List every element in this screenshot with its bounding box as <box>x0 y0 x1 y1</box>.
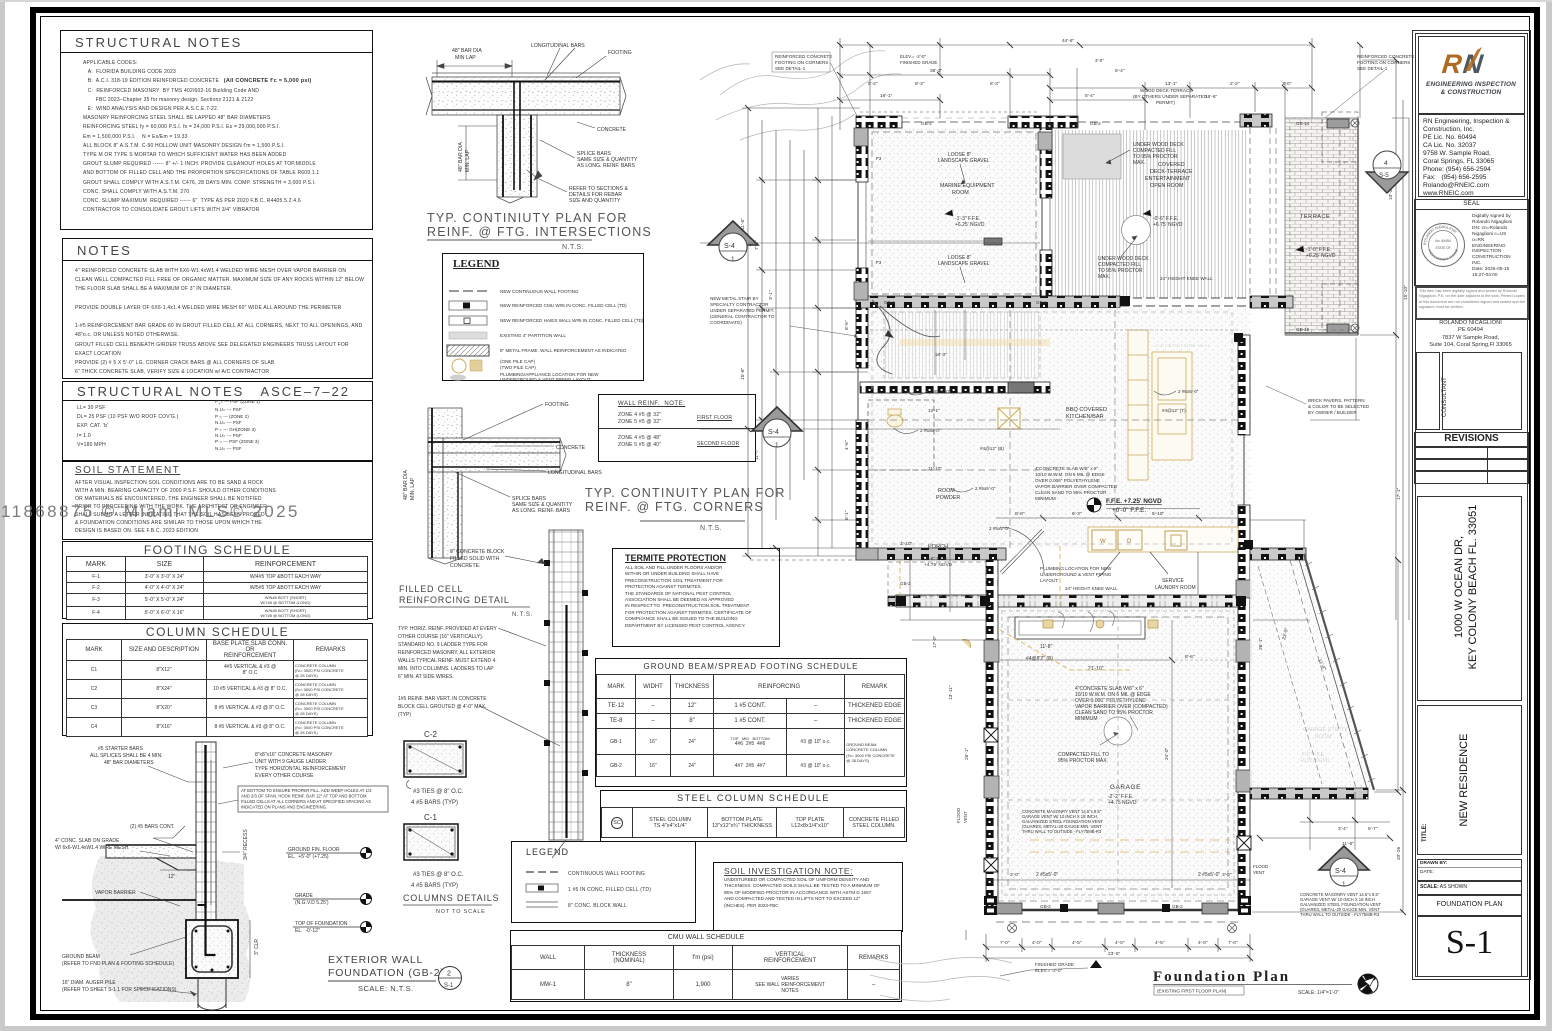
svg-text:8'-5": 8'-5" <box>844 320 850 330</box>
gray pads on garage walls <box>854 128 1251 798</box>
svg-text:(TWO PILE CAP): (TWO PILE CAP) <box>500 365 536 370</box>
interior ground-beam dashed grids <box>868 310 1322 895</box>
T-detail dimension 48in bar dia <box>437 60 512 180</box>
contact info box <box>1418 114 1525 197</box>
filled cell reinforcing detail ladder <box>544 530 588 858</box>
svg-text:CLEAN SAND TO 95% PROCTOR: CLEAN SAND TO 95% PROCTOR <box>1035 490 1107 495</box>
svg-text:26'-1": 26'-1" <box>964 747 970 760</box>
svg-text:DECK-TERRACE: DECK-TERRACE <box>1150 169 1193 175</box>
svg-text:FILLED CELLS AT ALL CORNERS AN: FILLED CELLS AT ALL CORNERS AND AT SPECI… <box>241 799 371 804</box>
svg-text:48" BAR DIA: 48" BAR DIA <box>458 142 464 172</box>
svg-text:4'-6": 4'-6" <box>844 440 850 450</box>
svg-text:FINISHED GRADE: FINISHED GRADE <box>1035 962 1074 967</box>
svg-text:7'-0": 7'-0" <box>1000 940 1010 946</box>
svg-text:CONCRETE: CONCRETE <box>556 445 586 451</box>
svg-text:PLUMBING LOCATION FOR NEW: PLUMBING LOCATION FOR NEW <box>1040 566 1112 571</box>
svg-text:W/ 6x6-W1.4xW1.4 WIRE MESH: W/ 6x6-W1.4xW1.4 WIRE MESH <box>55 845 129 851</box>
svg-text:21'-10": 21'-10" <box>1088 666 1104 672</box>
svg-text:COVERED: COVERED <box>1158 162 1185 168</box>
small junction squares middle wing <box>896 296 1253 606</box>
revisions header <box>1414 432 1529 448</box>
stair corridor with hatch + tan runner <box>860 300 1050 429</box>
svg-text:SERVICE: SERVICE <box>1162 578 1185 584</box>
svg-text:FINISHED GRADE: FINISHED GRADE <box>900 60 937 65</box>
svg-text:3'-4": 3'-4" <box>1338 826 1348 832</box>
svg-text:4" CONC. SLAB ON GRADE: 4" CONC. SLAB ON GRADE <box>55 838 120 844</box>
marine room interior fill <box>870 128 1040 298</box>
svg-text:LONGITUDINAL BARS: LONGITUDINAL BARS <box>531 43 585 49</box>
svg-text:2 #5x5'-0": 2 #5x5'-0" <box>989 526 1010 531</box>
svg-text:NEW METAL STAIR BY: NEW METAL STAIR BY <box>710 296 759 301</box>
scale <box>1417 880 1522 896</box>
svg-text:SCALE: N.T.S.: SCALE: N.T.S. <box>358 984 414 993</box>
svg-text:3'-1": 3'-1" <box>768 290 774 300</box>
svg-text:LANDSCAPE GRAVEL: LANDSCAPE GRAVEL <box>938 261 990 267</box>
right dims <box>1395 60 1397 620</box>
svg-text:PROFESSIONAL ENGINEER: PROFESSIONAL ENGINEER <box>1415 210 1459 262</box>
svg-text:24" HEIGHT KNEE WALL: 24" HEIGHT KNEE WALL <box>1065 586 1118 591</box>
svg-text:10/10 W.W.M. ON 6 MIL @ EDGE: 10/10 W.W.M. ON 6 MIL @ EDGE <box>1035 472 1105 477</box>
svg-text:4'-0": 4'-0" <box>1032 940 1042 946</box>
svg-text:7'-0": 7'-0" <box>1228 940 1238 946</box>
svg-text:S-4: S-4 <box>724 243 735 250</box>
S-5 marker top right <box>1366 151 1408 193</box>
svg-text:LANDSCAPE GRAVEL: LANDSCAPE GRAVEL <box>938 158 990 164</box>
svg-text:4: 4 <box>1384 160 1388 167</box>
svg-text:MAX.: MAX. <box>1098 274 1110 280</box>
svg-text:1: 1 <box>731 256 735 263</box>
W D boxes <box>1092 530 1116 550</box>
svg-text:48" BAR DIA: 48" BAR DIA <box>403 470 409 500</box>
svg-text:3'-0": 3'-0" <box>1010 872 1020 878</box>
svg-text:UNDERGROUND & VENT PIPING: UNDERGROUND & VENT PIPING <box>1040 572 1112 577</box>
svg-text:8'-6": 8'-6" <box>1185 654 1195 660</box>
svg-text:2'-2": 2'-2" <box>1230 81 1240 87</box>
auger pile <box>197 978 199 1008</box>
project address box <box>1417 496 1522 701</box>
svg-text:EXISTING 4" PARTITION WALL: EXISTING 4" PARTITION WALL <box>500 333 566 338</box>
left dims <box>747 108 749 556</box>
big X vent at right <box>998 408 1020 429</box>
svg-text:LAYOUT: LAYOUT <box>1040 578 1058 583</box>
svg-text:5'-2": 5'-2" <box>868 81 878 87</box>
kitchen bar counters (tan) <box>1088 330 1238 552</box>
svg-text:18'-3": 18'-3" <box>935 352 947 357</box>
equipment dark rect in marine room <box>984 238 1002 245</box>
svg-text:8'-8": 8'-8" <box>1015 511 1025 517</box>
svg-text:11'-7": 11'-7" <box>754 448 760 460</box>
svg-text:+6.25' NGVD: +6.25' NGVD <box>955 222 985 228</box>
svg-text:FLOOD: FLOOD <box>956 808 961 823</box>
garage circle <box>1104 717 1132 745</box>
svg-text:AS LONG. REINF. BARS: AS LONG. REINF. BARS <box>512 508 570 514</box>
service band across top of garage <box>896 595 1242 607</box>
svg-text:GROUND FIN. FLOOR: GROUND FIN. FLOOR <box>288 847 340 853</box>
contour squiggles bottom <box>862 955 1012 1001</box>
extra ticks <box>745 42 1401 841</box>
legend box lower <box>511 841 696 923</box>
svg-text:36'-2": 36'-2" <box>930 68 943 74</box>
extra dim lines for density <box>700 38 1398 850</box>
top-right corner band <box>1240 114 1272 127</box>
svg-text:STANDARD NO. 9 LADDER TYPE FOR: STANDARD NO. 9 LADDER TYPE FOR <box>398 642 488 648</box>
svg-text:GB-2: GB-2 <box>921 121 932 126</box>
terrace right edge <box>1357 118 1359 335</box>
garage bottom wall <box>986 909 1250 911</box>
terrace brick <box>1285 118 1358 335</box>
svg-text:FILLED SOLID WITH: FILLED SOLID WITH <box>450 556 500 562</box>
svg-text:+6.75' NGVD: +6.75' NGVD <box>1153 222 1183 228</box>
column schedule panel <box>62 623 373 736</box>
dim line above laundry counter <box>996 509 1240 595</box>
svg-text:FOOTING ON CORNERS: FOOTING ON CORNERS <box>775 60 828 65</box>
svg-text:AT BOTTOM TO ENSURE PROPER FIL: AT BOTTOM TO ENSURE PROPER FILL. ADD WEE… <box>241 788 372 793</box>
flood vent X markers <box>984 728 1251 872</box>
level markers <box>286 847 372 934</box>
soil investigation note <box>713 862 903 932</box>
svg-text:ALL SPLICES SHALL BE 4 MIN.: ALL SPLICES SHALL BE 4 MIN. <box>90 753 162 759</box>
svg-text:SIZE AND QUANTITY: SIZE AND QUANTITY <box>569 198 621 204</box>
svg-text:(2) #5 BARS CONT.: (2) #5 BARS CONT. <box>130 824 174 830</box>
terrace inner dashes <box>1290 123 1353 330</box>
svg-text:+0'-0" F.F.E.: +0'-0" F.F.E. <box>1112 507 1146 514</box>
svg-text:95% PROCTOR MAX.: 95% PROCTOR MAX. <box>1058 758 1108 764</box>
T-detail title <box>427 211 652 251</box>
svg-text:S-1: S-1 <box>444 983 454 989</box>
svg-text:13'-1": 13'-1" <box>928 408 940 413</box>
garage interior vertical dim <box>1171 620 1173 888</box>
svg-text:OVER 0.006" POLYETHYLENE: OVER 0.006" POLYETHYLENE <box>1035 478 1100 483</box>
outer gray page edges <box>0 0 5 1031</box>
svg-text:5'-7": 5'-7" <box>1368 826 1378 832</box>
dimension tick marks <box>745 42 1406 961</box>
svg-text:EVERY OTHER COURSE: EVERY OTHER COURSE <box>255 773 314 779</box>
svg-text:17'-1": 17'-1" <box>1396 487 1402 500</box>
svg-text:EL. -0'-12": EL. -0'-12" <box>295 928 320 934</box>
svg-text:FILLED CELL: FILLED CELL <box>399 584 463 594</box>
seal bar <box>1414 199 1529 210</box>
svg-text:8'-3": 8'-3" <box>915 81 925 87</box>
steel column schedule <box>600 790 907 842</box>
consultant boxes <box>1416 352 1440 430</box>
svg-text:+4.75' NGVD: +4.75' NGVD <box>924 562 953 568</box>
svg-text:16" DIAM. AUGER PILE: 16" DIAM. AUGER PILE <box>62 980 116 986</box>
svg-text:GB-1: GB-1 <box>1036 300 1047 305</box>
svg-text:COORDINATE): COORDINATE) <box>710 320 742 325</box>
3in clr dim <box>249 920 251 978</box>
svg-text:MIN. INTO COLUMNS. LADDERS TO: MIN. INTO COLUMNS. LADDERS TO LAP <box>398 666 494 672</box>
powder room <box>868 400 960 501</box>
svg-text:POWDER: POWDER <box>936 495 960 501</box>
svg-text:MAX.: MAX. <box>1133 160 1145 166</box>
footing T-detail concrete band <box>426 73 626 203</box>
svg-text:F.F.E. +7.25' NGVD: F.F.E. +7.25' NGVD <box>1106 498 1162 505</box>
svg-text:UNDER SEPARATED PERMIT.: UNDER SEPARATED PERMIT. <box>710 308 774 313</box>
svg-text:F3: F3 <box>876 156 882 161</box>
footing schedule panel <box>62 541 373 619</box>
svg-text:24'-0": 24'-0" <box>1164 747 1170 760</box>
svg-text:GB-2: GB-2 <box>1040 904 1051 909</box>
svg-text:15'-10": 15'-10" <box>1403 285 1409 300</box>
svg-text:OPEN ROOM: OPEN ROOM <box>1150 183 1184 189</box>
svg-text:C-2: C-2 <box>424 730 437 739</box>
svg-text:THRU WALL TO OUTSIDE - FLY75MB: THRU WALL TO OUTSIDE - FLY75MB-R3 <box>1022 829 1102 834</box>
svg-text:MINIMUM: MINIMUM <box>1035 496 1056 501</box>
svg-text:4 #5 BARS (TYP): 4 #5 BARS (TYP) <box>411 883 458 889</box>
svg-text:24" HEIGHT KNEE WALL: 24" HEIGHT KNEE WALL <box>1160 276 1213 281</box>
svg-text:GROUND BEAM: GROUND BEAM <box>62 954 100 960</box>
svg-text:GRADE: GRADE <box>295 893 313 899</box>
svg-text:5'-4": 5'-4" <box>1085 93 1095 99</box>
upper wing labels <box>876 88 1336 348</box>
sheet title <box>1417 894 1522 917</box>
svg-text:#5 STARTER BARS: #5 STARTER BARS <box>98 746 143 752</box>
svg-text:4'-5": 4'-5" <box>1072 940 1082 946</box>
svg-text:N.T.S.: N.T.S. <box>562 244 584 251</box>
svg-text:GB-14: GB-14 <box>1296 121 1310 126</box>
svg-text:2 #5x5'-0": 2 #5x5'-0" <box>1036 872 1058 878</box>
svg-text:2: 2 <box>447 971 451 978</box>
svg-text:FOOTING ON CORNERS: FOOTING ON CORNERS <box>1357 60 1410 65</box>
svg-text:S-4: S-4 <box>768 429 779 436</box>
svg-text:CONCRETE.: CONCRETE. <box>450 563 481 569</box>
svg-text:REINF. @ FTG. CORNERS: REINF. @ FTG. CORNERS <box>585 500 764 514</box>
svg-text:#4@12" (T): #4@12" (T) <box>1162 408 1186 413</box>
svg-text:4 #5 BARS (TYP): 4 #5 BARS (TYP) <box>411 800 458 806</box>
plan title <box>1153 969 1378 996</box>
svg-text:LONGITUDINAL BARS: LONGITUDINAL BARS <box>548 470 602 476</box>
svg-text:#4@8'2" (B): #4@8'2" (B) <box>1026 656 1053 662</box>
footing block <box>186 920 238 978</box>
svg-text:No. 60494: No. 60494 <box>1435 239 1451 243</box>
svg-text:OTHER COURSE (16" VERTICALLY).: OTHER COURSE (16" VERTICALLY). <box>398 634 483 640</box>
svg-text:6" MIN. AT SIDE WIRES.: 6" MIN. AT SIDE WIRES. <box>398 674 454 680</box>
deck gray rect <box>1063 134 1121 179</box>
svg-text:LAUNDRY ROOM: LAUNDRY ROOM <box>1155 585 1196 591</box>
svg-text:MIN LAP: MIN LAP <box>455 55 476 61</box>
svg-text:1: 1 <box>1342 881 1346 888</box>
svg-text:INDICATED ON PLANS AND ENGINEE: INDICATED ON PLANS AND ENGINEERING. <box>241 805 327 810</box>
svg-text:GB-2: GB-2 <box>1090 121 1101 126</box>
north arrow <box>1358 974 1378 994</box>
left wall middle wing <box>856 308 868 368</box>
svg-text:2 #5x5'-0": 2 #5x5'-0" <box>975 486 996 491</box>
svg-text:MIN. LAP: MIN. LAP <box>465 149 471 172</box>
svg-text:EXTERIOR WALL: EXTERIOR WALL <box>328 954 423 966</box>
svg-text:4'-0": 4'-0" <box>1198 940 1208 946</box>
structural notes asce panel <box>62 381 373 461</box>
f.f.e. datum <box>1087 498 1162 514</box>
svg-text:GB-1: GB-1 <box>884 300 895 305</box>
svg-text:4'-0": 4'-0" <box>1115 940 1125 946</box>
svg-text:(TYP): (TYP) <box>398 712 411 718</box>
svg-text:TYP. HORIZ. REINF. PROVIDED AT: TYP. HORIZ. REINF. PROVIDED AT EVERY <box>398 626 497 632</box>
wall: CMU with ladder <box>196 742 216 922</box>
right wall marine room <box>1040 128 1052 198</box>
svg-text:Foundation Plan: Foundation Plan <box>1153 969 1290 985</box>
svg-text:WALLS TYPICAL REINF. MUST EXTE: WALLS TYPICAL REINF. MUST EXTEND 4. <box>398 658 497 664</box>
knee wall band bottom of upper wing <box>856 296 1120 308</box>
top dashed to terrace <box>1078 121 1255 123</box>
garage labels <box>956 578 1381 917</box>
leader: reinforced concrete footing notes <box>710 54 1414 973</box>
svg-text:STATE OF: STATE OF <box>1435 246 1450 250</box>
soil statement panel <box>62 461 373 540</box>
svg-text:TERRACE: TERRACE <box>1300 214 1330 220</box>
svg-text:17'-0": 17'-0" <box>932 635 938 648</box>
svg-text:KITCHEN/BAR: KITCHEN/BAR <box>1066 414 1104 420</box>
RN logo box <box>1418 36 1525 114</box>
plumbing tan dashed lines <box>900 546 1130 670</box>
svg-text:TOP OF FOUNDATION: TOP OF FOUNDATION <box>295 921 348 927</box>
svg-text:20'-26: 20'-26 <box>1396 846 1402 860</box>
svg-text:15'-8": 15'-8" <box>740 367 746 380</box>
svg-text:SEE DETAIL-1: SEE DETAIL-1 <box>1357 66 1388 71</box>
svg-text:11'-8": 11'-8" <box>1040 644 1053 650</box>
svg-text:+6.25' NGVD: +6.25' NGVD <box>1306 253 1336 259</box>
svg-text:REINF. @ FTG. INTERSECTIONS: REINF. @ FTG. INTERSECTIONS <box>427 225 652 239</box>
svg-text:(N.G.V.D 5.25'): (N.G.V.D 5.25') <box>295 900 329 906</box>
starter bar hook <box>198 904 206 906</box>
svg-text:1#5 REINF. BAR VERT. IN CONCRE: 1#5 REINF. BAR VERT. IN CONCRETE <box>398 696 487 702</box>
svg-text:NOT TO SCALE: NOT TO SCALE <box>436 909 486 915</box>
notes panel <box>62 238 373 379</box>
second wall band <box>860 382 1050 393</box>
sheet number S-1 <box>1417 915 1522 977</box>
exterior wall foundation title <box>328 954 462 993</box>
svg-text:+4.75 NGVD: +4.75 NGVD <box>1108 800 1137 806</box>
svg-text:2 #5x5'-0": 2 #5x5'-0" <box>1178 389 1199 394</box>
svg-text:ENTERTAINMENT: ENTERTAINMENT <box>1145 176 1191 182</box>
top wall band mid cluster <box>1008 116 1078 128</box>
bottom dims garage <box>986 879 1250 881</box>
marine room inner dashed outline <box>872 132 1036 294</box>
svg-text:#4@12" (B): #4@12" (B) <box>980 446 1004 451</box>
svg-text:COLUMNS DETAILS: COLUMNS DETAILS <box>403 893 499 903</box>
svg-text:26'-1": 26'-1" <box>1258 637 1264 650</box>
svg-text:REINFORCED CONCRETE: REINFORCED CONCRETE <box>775 54 832 59</box>
terrace bottom band <box>1285 332 1358 334</box>
svg-text:5'-4": 5'-4" <box>1115 68 1125 74</box>
mid horizontal dims <box>870 329 1240 331</box>
right edge middle wing <box>1238 335 1250 435</box>
svg-text:ROOM: ROOM <box>952 190 969 196</box>
svg-text:48" BAR DIAMETERS: 48" BAR DIAMETERS <box>104 760 154 766</box>
ground beam / spread footing schedule <box>595 658 907 787</box>
svg-text:3/4" RECESS: 3/4" RECESS <box>243 829 249 860</box>
drawn by / date <box>1417 859 1522 882</box>
svg-text:GARAGE: GARAGE <box>1110 784 1141 791</box>
svg-text:TYP. CONTINUITY PLAN FOR: TYP. CONTINUITY PLAN FOR <box>585 486 786 500</box>
svg-text:8'-3": 8'-3" <box>990 81 1000 87</box>
structural notes panel <box>60 30 373 230</box>
svg-text:REINFORCED CONCRETE: REINFORCED CONCRETE <box>1357 54 1414 59</box>
svg-text:TYPE HORIZONTAL REINFORCEMENT: TYPE HORIZONTAL REINFORCEMENT <box>255 766 346 772</box>
svg-text:NEW CONTINUOUS WALL FOOTING: NEW CONTINUOUS WALL FOOTING <box>500 289 579 294</box>
grade line left <box>62 899 196 901</box>
column detail C-1 <box>404 813 464 889</box>
utility room <box>1250 548 1375 799</box>
svg-text:VENT: VENT <box>963 811 968 823</box>
svg-text:44'-6": 44'-6" <box>1062 38 1075 44</box>
plumbing small symbols <box>962 620 1158 648</box>
svg-text:#3 TIES @ 8" O.C.: #3 TIES @ 8" O.C. <box>413 872 464 878</box>
svg-text:R: R <box>1441 48 1464 79</box>
svg-text:& CONSTRUCTION: & CONSTRUCTION <box>1441 89 1502 96</box>
seal box with stamp + signature text <box>1414 209 1529 286</box>
wall reinf note box <box>598 394 756 462</box>
svg-text:AND 2/3 OF SPAN. HOOK REINF. B: AND 2/3 OF SPAN. HOOK REINF. BAR 12" AT … <box>241 794 367 799</box>
landscape contour squiggles top-left <box>700 51 901 140</box>
svg-text:6'-3": 6'-3" <box>1072 511 1082 517</box>
svg-text:19'-1": 19'-1" <box>880 93 893 99</box>
corner title <box>585 486 786 532</box>
svg-text:3" CLR: 3" CLR <box>254 939 260 955</box>
svg-text:N.T.S.: N.T.S. <box>512 612 533 618</box>
soil stipple backdrop <box>91 854 251 1002</box>
svg-text:8" METAL FRAME. WALL REINFORCE: 8" METAL FRAME. WALL REINFORCEMENT AS IN… <box>500 348 627 353</box>
interior dim texts middle wing <box>920 352 1199 591</box>
svg-text:GB-2: GB-2 <box>1172 904 1183 909</box>
svg-text:FOOTING: FOOTING <box>608 50 632 56</box>
small leader curls above planter <box>1058 611 1114 632</box>
svg-text:13'-1": 13'-1" <box>1165 81 1178 87</box>
cmu wall schedule <box>510 930 902 1002</box>
svg-text:4'-5": 4'-5" <box>1155 940 1165 946</box>
svg-text:MARINE EQUIPMENT: MARINE EQUIPMENT <box>940 183 995 189</box>
title box: NEW RESIDENCE <box>1417 705 1522 855</box>
svg-text:EL. +5'-0" (+7.25): EL. +5'-0" (+7.25) <box>288 854 329 860</box>
svg-text:8" CONCRETE BLOCK: 8" CONCRETE BLOCK <box>450 549 505 555</box>
svg-text:VAPOR BARRIER OVER COMPACTED: VAPOR BARRIER OVER COMPACTED <box>1035 484 1118 489</box>
svg-text:#3 TIES @ 8" O.C.: #3 TIES @ 8" O.C. <box>413 789 464 795</box>
svg-text:SEE DETAIL-1: SEE DETAIL-1 <box>775 66 806 71</box>
engineer address <box>1414 320 1527 350</box>
svg-text:FOOTING: FOOTING <box>545 402 569 408</box>
note box in exterior detail <box>238 786 388 812</box>
svg-text:S-4: S-4 <box>1335 868 1346 875</box>
deck hatch region <box>1052 130 1248 298</box>
S-4 marker left upper <box>708 221 1040 263</box>
svg-text:1: 1 <box>775 442 779 449</box>
svg-text:VAPOR BARRIER: VAPOR BARRIER <box>95 890 136 896</box>
svg-text:FLOOD: FLOOD <box>1253 864 1268 869</box>
svg-text:MIN. LAP: MIN. LAP <box>410 477 416 500</box>
title block outer <box>1412 30 1531 980</box>
exterior detail leader texts <box>55 746 346 993</box>
garage left wall <box>986 560 998 912</box>
svg-text:(REFER TO FND PLAN & FOOTING S: (REFER TO FND PLAN & FOOTING SCHEDULE) <box>62 961 174 967</box>
svg-text:S-5: S-5 <box>1379 172 1389 179</box>
svg-text:TYP. CONTINIUTY PLAN FOR: TYP. CONTINIUTY PLAN FOR <box>427 211 628 225</box>
svg-text:N.T.S.: N.T.S. <box>700 525 722 532</box>
svg-text:6'-1": 6'-1" <box>844 510 850 520</box>
column detail C-2 <box>404 730 466 806</box>
svg-text:2'-10": 2'-10" <box>900 541 913 547</box>
svg-text:PERMIT): PERMIT) <box>1156 100 1175 105</box>
svg-text:8"x8"x16" CONCRETE MASONRY: 8"x8"x16" CONCRETE MASONRY <box>255 752 333 758</box>
12 dim <box>160 869 186 871</box>
S-4 marker left lower <box>752 407 1060 449</box>
svg-text:GB-2: GB-2 <box>900 581 911 586</box>
svg-text:UNIT WITH 9 GAUGE LADDER: UNIT WITH 9 GAUGE LADDER <box>255 759 326 765</box>
disclaimer box <box>1415 286 1529 320</box>
terrace pads and dashed rects <box>1327 119 1349 128</box>
svg-text:MINIMUM: MINIMUM <box>1075 716 1098 722</box>
svg-text:VENT: VENT <box>1253 870 1265 875</box>
svg-text:48" BAR DIA: 48" BAR DIA <box>452 48 482 54</box>
dim labels <box>740 38 1409 957</box>
